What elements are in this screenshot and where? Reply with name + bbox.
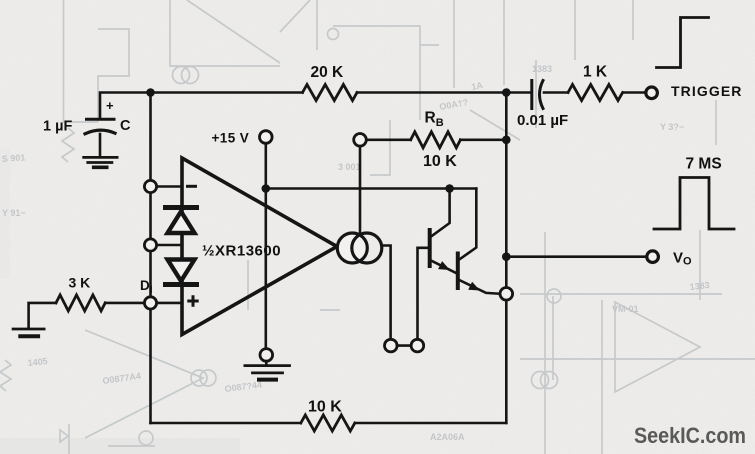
svg-text:1 K: 1 K [583,64,608,81]
node +15V rail junction [262,184,271,193]
wire collector rail [266,187,477,190]
pin circle opamp bias bottom [260,349,273,362]
node Q1 collector junction [445,184,454,193]
resistor R2 1K [568,85,623,101]
transistor Q2 emitter arrow [468,282,480,291]
ground left of 3K [13,328,44,331]
transistor Q1 emitter [432,261,458,274]
capacitor C2 0.01uF left plate [530,81,533,109]
capacitor C1 1uF top plate [87,118,115,121]
svg-text:Y 3?−: Y 3?− [660,122,684,132]
capacitor C2 0.01uF curved plate [540,81,544,109]
wire right bus top [505,93,508,288]
wire 3K to ground [29,303,56,328]
op-amp U1 triangle [182,158,337,335]
transistor Q2 collector [459,189,476,260]
pin circle buffer in [411,339,424,352]
terminal VO [647,251,659,263]
wire mirror output right [382,246,391,340]
transistor Q2 base bar [456,254,460,289]
svg-text:3 001: 3 001 [338,162,361,172]
node top-left junction [146,88,155,97]
capacitor C1 1uF curved plate [85,130,115,134]
trigger input waveform icon [657,18,709,68]
output pulse waveform icon [654,178,734,230]
resistor RB 10K [411,132,461,148]
wire left bus vertical [149,93,152,424]
transistor Q1 emitter arrow [438,261,450,270]
ground below op-amp [245,364,290,367]
svg-text:S 901: S 901 [1,152,25,164]
svg-text:10 K: 10 K [308,399,342,416]
current mirror U1b circle right [352,233,382,263]
svg-text:10 K: 10 K [423,153,457,170]
pin circle RB [354,134,367,147]
transistor Q2 emitter [460,280,501,294]
wire +15V vertical through opamp to bias pin [264,143,267,348]
svg-text:1 µF: 1 µF [43,119,72,135]
wire minus input stub [157,185,183,188]
transistor Q1 base bar [428,230,432,266]
wire plus input stub [157,302,183,305]
pin circle mirror out [385,339,398,352]
diode D1b (points down) [168,260,195,282]
svg-text:7 MS: 7 MS [686,156,722,173]
svg-text:1A: 1A [471,80,485,92]
svg-text:1405: 1405 [27,356,48,368]
svg-text:C: C [120,118,131,134]
label plus input [189,297,197,305]
wire top rail left (cap to 20K) [100,93,303,120]
resistor R4 10K [301,415,355,431]
terminal TRIGGER [646,87,658,99]
pin circle diode mid [144,239,156,251]
resistor R3 3K [56,295,105,311]
svg-text:1383: 1383 [689,280,710,292]
current mirror U1b circle left [337,233,367,263]
svg-text:20 K: 20 K [311,64,345,81]
wire mid diode stub [157,244,183,247]
svg-text:0.01 µF: 0.01 µF [517,112,568,129]
node B junction [502,88,511,97]
node RB junction on right rail [502,136,511,145]
svg-text:+15 V: +15 V [212,131,250,146]
diode D1a (points up) [168,212,195,234]
svg-text:Y 91−: Y 91− [2,208,26,218]
wire 20K to node B [357,91,531,94]
wire RB to right rail [460,139,506,142]
pin circle minus input [144,180,156,192]
wire 3K to D1 pin [105,302,144,305]
svg-text:1383: 1383 [532,64,552,74]
wire cap to ground [99,134,102,156]
svg-text:3 K: 3 K [69,275,91,291]
svg-text:VM-01: VM-01 [612,304,639,314]
wire RB bias to current mirror [359,146,362,233]
ground below C1 [84,156,117,159]
wire C2 to 1K [544,91,568,94]
wire 1K to trigger terminal [623,91,646,94]
pin circle Q2 emitter out [500,288,513,301]
resistor R1 20K [303,85,358,101]
wire buffer in to Q1 base [418,248,429,339]
svg-text:½XR13600: ½XR13600 [202,243,281,260]
diode D1a cathode bar [166,205,197,210]
wire bottom rail right [355,422,506,425]
wire VO [506,255,647,258]
pin circle +15V [260,131,273,144]
wire right bus bottom [505,300,508,423]
wire RB to pin circle [366,139,411,142]
diode D1b cathode bar [166,282,197,287]
node VO junction [502,252,511,261]
label minus input [188,185,196,188]
wire bottom rail left [151,422,301,425]
svg-text:TRIGGER: TRIGGER [671,83,742,99]
svg-text:A2A06A: A2A06A [430,432,465,442]
wire pin link [397,344,411,347]
svg-text:SeekIC.com: SeekIC.com [634,423,746,448]
pin circle plus input D1 [144,297,156,309]
wire bias pin to ground [265,361,268,365]
svg-text:+: + [106,98,114,113]
transistor Q1 collector [431,189,450,237]
